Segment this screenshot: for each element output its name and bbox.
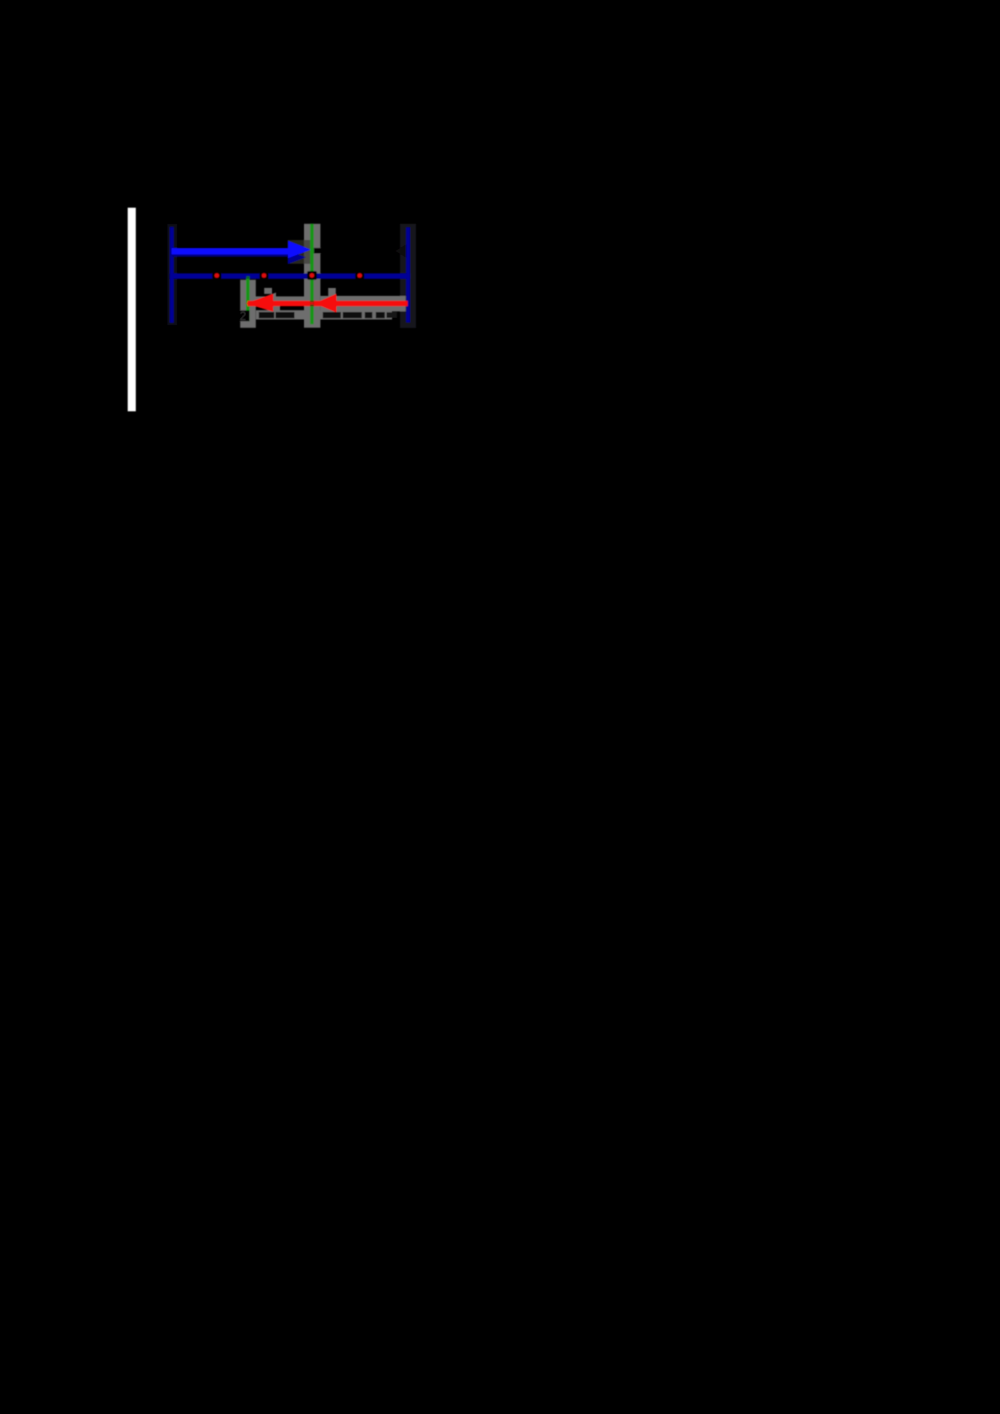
white margin bar xyxy=(128,208,136,412)
blue arrow shaft xyxy=(172,248,290,254)
faint halo behind right tick xyxy=(400,224,416,328)
red arrow shaft xyxy=(248,301,408,306)
faint dark arrowhead at right tick (blue arrow tail) xyxy=(395,245,406,258)
caption text block 4 xyxy=(343,312,362,318)
bright red core through the crossing xyxy=(310,302,314,305)
black halo of dot 1 xyxy=(212,271,221,280)
grey highlight behind caption text row xyxy=(256,310,392,319)
grey block below left red arrowhead xyxy=(274,305,280,311)
black halo of dot 4 xyxy=(355,271,364,280)
left green line nub over number line xyxy=(246,276,249,279)
svg-text:2: 2 xyxy=(240,311,246,323)
middle red arrowhead xyxy=(315,294,337,313)
red dot 2 xyxy=(262,273,267,278)
caption text block 3 xyxy=(323,312,341,318)
grey band behind red arrow (left of centre) xyxy=(248,296,304,305)
grey band behind centre green line xyxy=(304,224,320,328)
caption text block 6 xyxy=(376,312,385,318)
grey block above left red arrowhead xyxy=(264,288,272,294)
black notch right of green line at arrow tip xyxy=(314,248,322,254)
dark backdrop over grey band part xyxy=(304,240,311,264)
right end tick xyxy=(406,227,410,322)
grey band behind red arrow (right of centre) xyxy=(320,296,405,312)
black label box for digit 2 xyxy=(238,310,249,321)
number line xyxy=(170,273,410,278)
blue arrowhead xyxy=(288,241,311,258)
left red arrowhead xyxy=(246,294,274,312)
black halo of dot 2 xyxy=(259,271,268,280)
red dot 3 xyxy=(310,273,315,278)
red dot 1 xyxy=(215,273,220,278)
caption text block 7 (faint, beyond highlight) xyxy=(387,312,398,318)
grey block above middle red arrowhead xyxy=(328,288,336,296)
left end tick xyxy=(170,227,174,323)
navy shadow of blue arrow shaft xyxy=(172,252,289,257)
red dot 4 xyxy=(357,273,362,278)
caption text block 2 xyxy=(276,312,295,318)
faint halo behind left tick xyxy=(167,224,177,325)
dark backdrop behind blue arrowhead xyxy=(288,240,304,264)
black halo of dot 3 xyxy=(307,271,317,280)
caption text block 1 xyxy=(259,312,274,318)
caption text block 5 xyxy=(365,312,373,318)
grey dilation around left red arrowhead xyxy=(250,293,277,314)
navy shadow of blue arrowhead xyxy=(288,251,306,264)
centre green line xyxy=(310,224,314,324)
left green line xyxy=(246,279,250,321)
dark blend where red shaft crosses green line xyxy=(310,301,314,306)
grey band behind left green line xyxy=(240,280,256,328)
